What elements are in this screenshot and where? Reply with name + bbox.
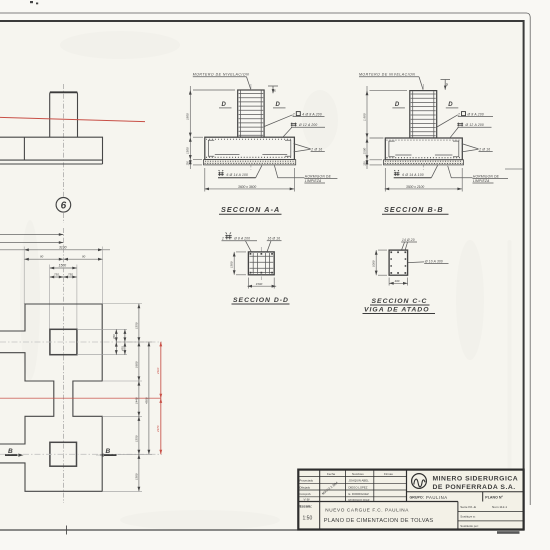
A-A annotation o12 icon (291, 123, 297, 127)
svg-text:2370: 2370 (156, 425, 160, 433)
vertical chain C 4500 (148, 342, 150, 455)
B-B bottom bars (395, 154, 452, 156)
svg-text:SECCION B-B: SECCION B-B (384, 205, 444, 214)
A-A column stirrups (239, 94, 264, 136)
svg-text:D: D (395, 102, 400, 108)
B-B footing left hook (389, 141, 395, 157)
B-B bottom dim (385, 168, 463, 192)
D-D inner bars (253, 253, 269, 274)
svg-text:Serie PA -E: Serie PA -E (460, 505, 476, 509)
A-A leader to o12 note (283, 127, 292, 137)
sheet inner thick border right (523, 20, 525, 531)
dim 1050/1050 (24, 258, 102, 260)
svg-text:PLANO DE CIMENTACION DE TO: PLANO DE CIMENTACION DE TOLVAS (324, 518, 434, 524)
svg-text:1500: 1500 (230, 261, 234, 268)
svg-text:PLANO Nº: PLANO Nº (485, 495, 503, 499)
red vertical chain (160, 342, 162, 455)
svg-text:DIEGO LOPEZ: DIEGO LOPEZ (349, 485, 368, 489)
svg-text:MORTERO DE NIVELACION: MORTERO DE NIVELACION (193, 73, 249, 77)
svg-text:1550: 1550 (134, 322, 138, 329)
svg-text:90: 90 (40, 255, 44, 259)
D-D bottom dim (247, 278, 276, 289)
svg-text:16 Ø 16: 16 Ø 16 (268, 237, 281, 241)
B-B mortero leader (419, 77, 423, 90)
D-D left dim (234, 252, 246, 275)
svg-text:50: 50 (445, 82, 449, 86)
serie row (458, 512, 524, 521)
svg-text:Sustituido por:: Sustituido por: (460, 524, 479, 528)
B-B left dim chain (367, 86, 407, 169)
C-C rebar dots (390, 251, 406, 273)
A-A centerline (250, 84, 252, 170)
D-D square (248, 252, 274, 275)
A-A leader 6 o14 (256, 165, 262, 177)
company logo (412, 474, 427, 489)
A-A 50 mini dim (268, 86, 278, 93)
A-A footing bottom dots (206, 156, 293, 158)
title block panel (298, 470, 523, 530)
plan lower pedestal (50, 442, 77, 466)
svg-text:14 Ø 20: 14 Ø 20 (402, 238, 415, 242)
svg-text:Firmas: Firmas (384, 472, 393, 476)
svg-text:D: D (276, 102, 281, 108)
small chain 450/450 b (124, 329, 126, 354)
svg-text:PAULINA: PAULINA (426, 495, 448, 500)
A-A leader limpieza (274, 165, 304, 177)
C-C left dim (376, 250, 387, 275)
svg-text:Ø 8 A 200: Ø 8 A 200 (233, 237, 250, 241)
B-B 50 mini dim (441, 80, 451, 90)
B-B column (410, 91, 437, 138)
A-A column bars (241, 91, 262, 155)
sheet inner thick border top (0, 20, 524, 22)
svg-text:JOAQUIN ABEL: JOAQUIN ABEL (349, 479, 370, 483)
svg-text:HORMIGON DE: HORMIGON DE (305, 175, 332, 179)
B-B leader limpieza (448, 166, 473, 178)
red pencil line (0, 117, 145, 121)
svg-text:750: 750 (68, 273, 73, 277)
dim line to centerline A (0, 234, 63, 236)
svg-text:6 Ø 14 A 100: 6 Ø 14 A 100 (402, 173, 424, 177)
svg-text:Escala:: Escala: (300, 505, 312, 509)
elevation pedestal (50, 92, 78, 137)
svg-text:RODOLFO DIAZ: RODOLFO DIAZ (349, 498, 370, 502)
title block horizontals (298, 476, 406, 478)
svg-text:SECCION D-D: SECCION D-D (233, 297, 289, 304)
A-A footing top dots (206, 138, 293, 140)
B-B leaders 2 o16 (462, 144, 479, 152)
svg-text:1.900: 1.900 (362, 113, 366, 121)
C-C bottom dim (389, 278, 408, 286)
svg-text:B: B (106, 448, 111, 455)
svg-text:3100: 3100 (59, 245, 67, 249)
svg-text:Ø 10 A 300: Ø 10 A 300 (424, 260, 443, 264)
svg-text:450: 450 (120, 346, 124, 351)
elevation centerline (62, 84, 64, 197)
B-B footing bottom dots (387, 157, 462, 159)
svg-text:2: 2 (221, 237, 224, 241)
plan vertical centerline (62, 228, 64, 503)
B-B annotation 6 o14 icon (394, 170, 400, 176)
svg-text:Fecha: Fecha (327, 472, 335, 476)
dim 1500 pedestal (50, 267, 77, 269)
A-A footing right hook (285, 140, 291, 156)
C-C leaders (397, 242, 408, 268)
svg-text:400: 400 (395, 279, 400, 283)
B-B centerline (422, 84, 424, 170)
A-A footing left hook (208, 140, 214, 156)
svg-text:Comprob.: Comprob. (300, 492, 312, 496)
C-C right leader (408, 261, 424, 264)
title block verticals (319, 470, 321, 530)
B-B leader to o12 note (450, 127, 458, 137)
svg-text:Ø 12 A 200: Ø 12 A 200 (465, 123, 484, 127)
svg-text:3500 x 2100: 3500 x 2100 (406, 185, 424, 189)
B-B leader to stirrup note (437, 115, 458, 127)
A-A annotation 6 o14 icon (218, 170, 224, 176)
elevation footing divider (23, 137, 25, 160)
svg-text:1550: 1550 (134, 435, 138, 442)
svg-text:6 Ø 14 A 100: 6 Ø 14 A 100 (227, 173, 249, 177)
svg-text:D: D (448, 102, 453, 108)
svg-text:VIGA DE ATADO: VIGA DE ATADO (364, 307, 430, 314)
A-A bottom dim (204, 168, 294, 192)
specks top-left margin (30, 1, 38, 4)
svg-text:1500: 1500 (256, 282, 263, 286)
svg-text:1500: 1500 (362, 147, 366, 154)
svg-text:150: 150 (362, 161, 366, 166)
svg-text:450: 450 (112, 334, 116, 339)
svg-text:Dibujado: Dibujado (300, 485, 311, 489)
svg-text:B: B (8, 448, 13, 455)
dim line to centerline B (0, 242, 63, 244)
right margin tick (505, 168, 523, 170)
B-B column bars (413, 91, 434, 155)
svg-text:D: D (222, 102, 227, 108)
B-B footing top dots (387, 139, 462, 141)
svg-text:2 Ø 16: 2 Ø 16 (310, 147, 322, 151)
node circle 6 (56, 198, 71, 213)
svg-text:1500: 1500 (186, 147, 190, 154)
svg-text:1500: 1500 (134, 473, 138, 480)
svg-text:DE PONFERRADA S.A.: DE PONFERRADA S.A. (433, 484, 516, 491)
A-A limpieza (204, 160, 296, 165)
svg-text:SECCION A-A: SECCION A-A (221, 205, 280, 214)
B-B annotation o12 icon (457, 123, 463, 127)
grupo row (407, 491, 524, 493)
svg-text:E. RODRIGUEZ: E. RODRIGUEZ (349, 492, 369, 496)
red middle centerline (0, 397, 161, 399)
B-B column stirrups (411, 94, 436, 136)
plan outline (0, 304, 102, 491)
svg-text:2 Ø 16: 2 Ø 16 (478, 147, 490, 151)
C-C beam rect (389, 250, 408, 275)
A-A column (238, 90, 264, 137)
stamp under block (497, 531, 520, 534)
B-B footing right hook (453, 141, 459, 157)
B-B leader 6 o14 (431, 165, 437, 177)
svg-text:GRUPO:: GRUPO: (410, 496, 424, 500)
svg-text:Proyectado: Proyectado (300, 479, 314, 483)
extension lines right of plan (77, 304, 152, 492)
svg-text:Num 112-1: Num 112-1 (492, 505, 507, 509)
B-B limpieza (384, 160, 464, 165)
svg-text:HORMIGON DE: HORMIGON DE (473, 175, 500, 179)
svg-text:6: 6 (61, 201, 67, 212)
svg-text:1:50: 1:50 (303, 516, 313, 522)
vertical chain B (138, 304, 140, 492)
svg-text:750: 750 (54, 273, 59, 277)
svg-text:Ø 8 A 200: Ø 8 A 200 (467, 112, 484, 116)
svg-text:2110: 2110 (156, 367, 160, 375)
A-A footing (205, 137, 295, 159)
svg-text:1440: 1440 (134, 397, 138, 404)
small chain 450/450 a (115, 329, 117, 354)
lower pedestal centerline (0, 453, 162, 455)
upper pedestal centerline (0, 341, 162, 343)
bottom fold tick (66, 526, 68, 535)
svg-text:Vº Bº: Vº Bº (304, 498, 310, 502)
A-A leaders 2 o16 (294, 144, 311, 152)
B-B footing (385, 138, 462, 160)
svg-text:2: 2 (457, 112, 460, 116)
D-D leaders (246, 241, 272, 270)
A-A bottom bars (215, 154, 287, 156)
svg-text:4500: 4500 (144, 397, 148, 404)
svg-text:MINERO SIDERURGICA: MINERO SIDERURGICA (433, 476, 519, 483)
D-D corner dots (250, 253, 273, 274)
svg-text:Ø 12 A 200: Ø 12 A 200 (298, 123, 317, 127)
svg-text:MORTERO DE NIVELACION: MORTERO DE NIVELACION (359, 73, 415, 77)
svg-text:NUEVO CARGUE F.C. PAULINA: NUEVO CARGUE F.C. PAULINA (325, 508, 409, 513)
svg-text:4 Ø 8 A 200: 4 Ø 8 A 200 (302, 112, 322, 116)
elevation footing outline (0, 137, 103, 164)
svg-text:1600: 1600 (134, 361, 138, 368)
D-D top annotation icon (225, 233, 231, 240)
A-A leader to stirrup note (264, 115, 292, 127)
plan upper pedestal (50, 329, 77, 354)
svg-text:Sustituye a:: Sustituye a: (460, 514, 475, 518)
extension lines top (24, 247, 102, 330)
svg-text:150: 150 (186, 161, 190, 166)
svg-text:3600 x 3600: 3600 x 3600 (238, 185, 256, 189)
svg-text:90: 90 (82, 255, 86, 259)
dim 750/750 (50, 276, 77, 278)
A-A left dim chain (190, 86, 235, 169)
svg-text:1000: 1000 (372, 260, 376, 267)
svg-text:2: 2 (292, 112, 295, 116)
dim 3600 overall (0, 249, 110, 251)
svg-text:LIMPIEZA: LIMPIEZA (473, 179, 490, 183)
elevation pedestal top edge thick (50, 91, 77, 93)
sheet bottom line (0, 529, 524, 531)
svg-text:Nombres: Nombres (352, 472, 364, 476)
svg-text:1800: 1800 (186, 113, 190, 120)
A-A mortero leader (247, 77, 251, 90)
D-D centerline (260, 247, 262, 280)
svg-text:LIMPIEZA: LIMPIEZA (305, 179, 322, 183)
svg-text:1500: 1500 (59, 264, 67, 268)
svg-text:50: 50 (273, 88, 277, 92)
svg-text:SECCION C-C: SECCION C-C (372, 298, 428, 305)
